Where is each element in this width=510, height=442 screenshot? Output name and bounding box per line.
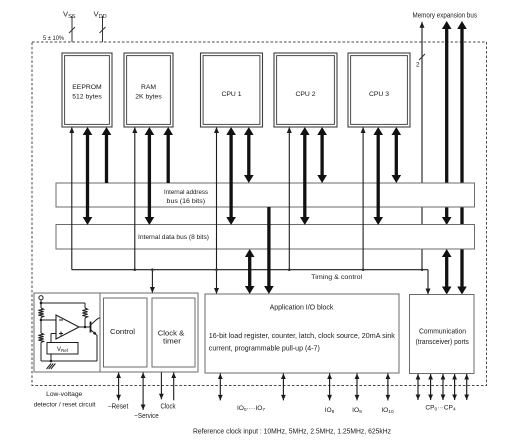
svg-text:RAM: RAM	[141, 84, 156, 91]
svg-text:CPU 1: CPU 1	[221, 91, 241, 98]
svg-text:Internal data bus (8 bits): Internal data bus (8 bits)	[138, 234, 209, 241]
svg-text:Memory expansion bus: Memory expansion bus	[413, 13, 478, 20]
svg-text:Communication: Communication	[419, 328, 466, 335]
svg-text:Internal address: Internal address	[164, 189, 208, 196]
svg-text:16-bit load register, counter,: 16-bit load register, counter, latch, cl…	[209, 333, 396, 340]
svg-text:Low-voltage: Low-voltage	[46, 391, 82, 398]
svg-text:CPU 2: CPU 2	[295, 91, 315, 98]
svg-text:512 bytes: 512 bytes	[72, 93, 102, 100]
svg-text:(transceiver) ports: (transceiver) ports	[416, 339, 470, 346]
svg-text:CP0···CP4: CP0···CP4	[425, 405, 456, 413]
svg-text:detector / reset circuit: detector / reset circuit	[34, 401, 96, 408]
svg-text:timer: timer	[163, 338, 182, 345]
svg-text:Clock &: Clock &	[158, 330, 185, 337]
svg-text:Reference clock input : 10MHz,: Reference clock input : 10MHz, 5MHz, 2.5…	[193, 429, 391, 436]
svg-text:2K bytes: 2K bytes	[135, 93, 162, 100]
svg-text:IO0····IO7: IO0····IO7	[237, 405, 265, 413]
svg-text:Control: Control	[110, 329, 135, 336]
svg-text:bus (16 bits): bus (16 bits)	[167, 198, 206, 205]
svg-text:2: 2	[416, 62, 420, 69]
svg-text:current, programmable pull-up: current, programmable pull-up (4-7)	[209, 345, 320, 352]
svg-text:EEPROM: EEPROM	[72, 84, 102, 91]
svg-text:Clock: Clock	[161, 404, 176, 411]
svg-text:~Service: ~Service	[134, 413, 159, 420]
svg-text:−Reset: −Reset	[108, 404, 129, 411]
svg-text:Application I/O block: Application I/O block	[270, 304, 334, 311]
svg-text:5 ± 10%: 5 ± 10%	[43, 35, 64, 42]
svg-text:Timing & control: Timing & control	[311, 274, 363, 281]
svg-text:CPU 3: CPU 3	[369, 91, 389, 98]
